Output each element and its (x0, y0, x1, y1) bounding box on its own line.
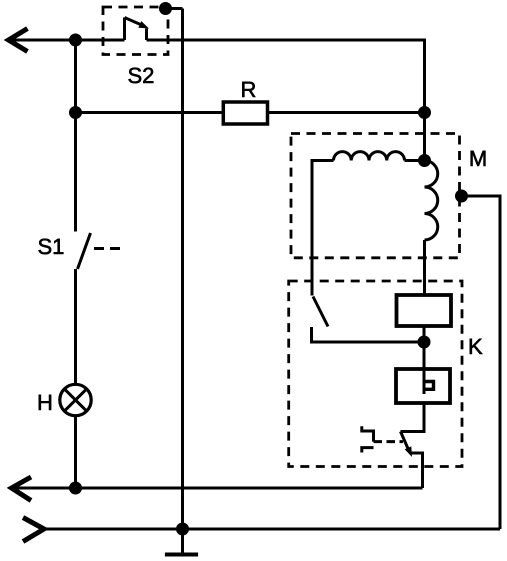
arrow left line L (top feed) (9, 29, 28, 52)
wire PE bottom conductor (44, 528, 500, 531)
wire relay coil to junction (423, 326, 426, 342)
switch S2 left stub (123, 18, 126, 41)
inductor motor winding horizontal (334, 152, 405, 161)
wire R left lead (76, 111, 224, 114)
wire S2 frame to PE conductor (166, 7, 183, 10)
contact K lower stub (312, 327, 425, 342)
wire junction to thermal element (423, 342, 426, 369)
contact K blade (NO contact) (313, 297, 328, 327)
label S2 (129, 68, 154, 84)
wire motor winding left lead (312, 161, 334, 296)
switch S2 blade arrowhead (138, 21, 150, 32)
node junction PE / ground (176, 523, 188, 535)
wire top feed to S2 (9, 39, 125, 42)
label H (39, 395, 51, 410)
label M (471, 151, 486, 166)
wire left branch upper (74, 40, 77, 232)
contact thermal trip blade (401, 432, 410, 453)
node junction relay coil / contact (418, 336, 430, 348)
thermal trip latch bracket (362, 426, 374, 452)
wire R right lead (268, 111, 425, 114)
ground (165, 553, 198, 557)
motor M enclosure (dashed) (291, 134, 460, 258)
S1 actuator link (dashed) (94, 247, 122, 250)
S2 enclosure (dashed) (103, 7, 168, 55)
thermal trip link (dashed) (374, 440, 404, 443)
wire bottom N conductor (12, 487, 423, 490)
contact thermal trip blade arrowhead (405, 446, 416, 458)
node S2 frame (PE tap) (159, 2, 171, 14)
label S1 (39, 239, 64, 255)
resistor R (223, 102, 267, 124)
node junction bottom-left (69, 482, 81, 494)
wire winding to junction (405, 159, 425, 162)
node motor frame (PE tap) (455, 190, 467, 202)
node motor winding junction (418, 154, 430, 166)
wire lamp to bottom (74, 416, 77, 488)
wire S2 to motor branch corner (147, 40, 425, 161)
wire trip contact lower stub (411, 453, 423, 488)
thermal element box (396, 369, 450, 403)
relay coil K (397, 295, 452, 326)
arrow right PE conductor entry (23, 518, 44, 542)
wire winding to relay coil (423, 240, 426, 295)
wire thermal element to trip contact (401, 403, 425, 432)
arrow left line N (bottom) (12, 477, 32, 501)
thermal element heater notch (424, 382, 434, 390)
node junction R right (418, 106, 430, 118)
inductor motor winding vertical (425, 161, 438, 241)
wire S1 to lamp (74, 269, 77, 385)
node junction R left (69, 106, 81, 118)
lamp H (60, 384, 91, 415)
thermal element conductor (423, 369, 426, 394)
switch S1 blade (78, 233, 91, 269)
label K (470, 339, 483, 354)
switch S2 blade (125, 18, 145, 27)
label R (242, 82, 255, 97)
relay K enclosure (dashed) (289, 281, 462, 467)
wire motor frame to PE down right side (462, 196, 501, 529)
node junction top-left (69, 34, 81, 46)
switch S2 right stub (145, 29, 148, 41)
wire PE vertical conductor (181, 9, 184, 555)
